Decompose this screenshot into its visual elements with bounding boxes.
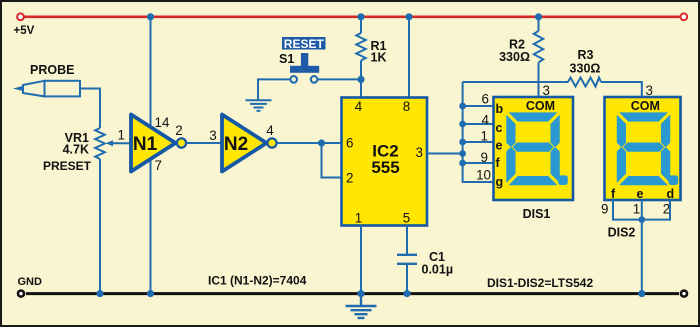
- potentiometer VR1: [95, 128, 105, 159]
- wire IC2 pin3 to segment bus: [427, 153, 463, 155]
- switch S1 pushbutton: [301, 53, 308, 67]
- wire stub pin e: [463, 141, 494, 143]
- net GND rail: [26, 292, 679, 295]
- display DIS2: [605, 97, 681, 200]
- decimal point DIS2: [669, 175, 679, 185]
- wire IC2 pin5 to C1: [406, 226, 408, 255]
- inverter N1: [131, 115, 176, 172]
- svg-text:4: 4: [482, 113, 490, 128]
- display DIS1: [494, 97, 574, 200]
- capacitor C1: [397, 254, 417, 256]
- +5V right terminal: [680, 13, 687, 20]
- svg-text:3: 3: [416, 145, 423, 160]
- svg-text:PRESET: PRESET: [43, 159, 92, 173]
- N1 output bubble: [177, 138, 186, 147]
- junction bus/c: [459, 121, 466, 128]
- svg-text:4.7K: 4.7K: [63, 143, 89, 157]
- svg-text:PROBE: PROBE: [30, 63, 74, 77]
- svg-text:COM: COM: [631, 99, 660, 113]
- wire segment bus top run to R3 and DIS2 COM: [463, 81, 568, 83]
- ground symbol below GND rail: [346, 295, 377, 318]
- decimal point DIS1: [558, 175, 568, 185]
- svg-text:S1: S1: [279, 52, 294, 66]
- resistor R1: [360, 17, 362, 33]
- svg-text:4: 4: [266, 123, 274, 138]
- svg-text:1K: 1K: [371, 50, 387, 64]
- svg-text:1: 1: [633, 202, 640, 217]
- wire DIS2 to GND: [641, 220, 643, 294]
- svg-text:IC1 (N1-N2)=7404: IC1 (N1-N2)=7404: [208, 274, 307, 288]
- svg-text:e: e: [496, 139, 503, 153]
- S1 right contact: [311, 76, 318, 83]
- svg-text:g: g: [496, 175, 504, 189]
- junction DIS2 / GND: [638, 290, 645, 297]
- junction bus/b: [459, 103, 466, 110]
- wire stub pin b: [463, 105, 494, 107]
- wire stub pin f: [463, 162, 494, 164]
- net +5V rail: [25, 15, 680, 18]
- ground symbol at S1: [246, 100, 272, 111]
- svg-text:1: 1: [118, 128, 125, 143]
- GND left terminal: [18, 291, 24, 297]
- junction node at pin6 wire: [318, 139, 325, 146]
- svg-text:b: b: [496, 102, 504, 116]
- svg-text:6: 6: [482, 92, 489, 107]
- resistor R2: [538, 17, 540, 31]
- wire N1 pin14 to +5V: [150, 17, 152, 128]
- svg-text:d: d: [667, 187, 675, 201]
- svg-text:0.01µ: 0.01µ: [422, 263, 454, 277]
- svg-text:9: 9: [481, 150, 488, 165]
- svg-text:N1: N1: [133, 134, 158, 155]
- svg-text:GND: GND: [18, 276, 43, 288]
- svg-text:1: 1: [355, 211, 362, 226]
- wire VR1 bottom to GND: [99, 159, 101, 294]
- IC U IC2 555: [342, 98, 428, 226]
- junction R2 / +5V: [535, 13, 542, 20]
- inverter N2: [222, 115, 267, 172]
- svg-text:N2: N2: [224, 134, 248, 155]
- svg-text:330Ω: 330Ω: [499, 50, 530, 64]
- svg-text:COM: COM: [526, 99, 555, 113]
- svg-text:e: e: [637, 187, 644, 201]
- junction bus/e: [459, 139, 466, 146]
- svg-text:3: 3: [209, 128, 216, 143]
- wire R2 to DIS1 pin3: [538, 82, 540, 97]
- junction IC2 pin8 / +5V: [405, 13, 412, 20]
- wire N2 out to IC2 pin6: [277, 142, 342, 144]
- wire junction to IC2 pin2: [322, 143, 342, 178]
- wire stub pin c: [463, 123, 494, 125]
- svg-text:2: 2: [346, 171, 353, 186]
- wire S1 right to R1 bottom node: [318, 78, 361, 80]
- switch S1 label RESET: [282, 37, 326, 50]
- svg-text:5: 5: [403, 211, 410, 226]
- svg-text:+5V: +5V: [14, 25, 35, 37]
- junction N1 pin14 / +5V: [147, 13, 154, 20]
- junction N1 pin7 / GND: [147, 290, 154, 297]
- wire N1 pin7 to GND: [150, 159, 152, 294]
- N2 output bubble: [267, 138, 276, 147]
- +5V left terminal: [17, 13, 24, 20]
- junction R1 / S1 / IC2 pin4: [357, 76, 364, 83]
- GND right terminal: [681, 291, 687, 297]
- S1 left contact: [290, 76, 297, 83]
- svg-text:RESET: RESET: [284, 37, 325, 51]
- svg-text:DIS1: DIS1: [523, 207, 551, 221]
- wire N1 out to N2 in: [187, 142, 223, 144]
- junction bus/IC2 pin3: [459, 150, 466, 157]
- wire R1 node to IC2 pin4: [360, 79, 362, 97]
- svg-text:330Ω: 330Ω: [570, 61, 601, 75]
- svg-text:DIS2: DIS2: [608, 226, 636, 240]
- svg-text:9: 9: [601, 202, 608, 217]
- VR1 wiper arrow: [106, 140, 114, 146]
- svg-text:2: 2: [175, 123, 182, 138]
- junction C1 / GND: [403, 290, 410, 297]
- svg-text:1: 1: [481, 129, 488, 144]
- seven segment digit DIS1: [507, 113, 560, 185]
- wire IC2 pin8 to +5V: [408, 17, 410, 98]
- junction bus/f: [459, 160, 466, 167]
- wire probe to VR1 top: [80, 89, 100, 129]
- svg-text:c: c: [496, 121, 503, 135]
- wire C1 to GND: [406, 264, 408, 294]
- svg-text:7: 7: [155, 158, 162, 173]
- wire DIS2 pins f e d bracket: [613, 200, 670, 220]
- junction VR1/GND: [96, 290, 103, 297]
- probe P1: [13, 81, 80, 97]
- svg-text:555: 555: [371, 158, 399, 177]
- segment bus vertical: [463, 82, 494, 182]
- svg-text:4: 4: [355, 99, 363, 114]
- svg-text:6: 6: [346, 136, 353, 151]
- svg-text:8: 8: [403, 99, 410, 114]
- svg-text:14: 14: [155, 115, 170, 130]
- junction R1 / +5V: [357, 13, 364, 20]
- resistor R3: [568, 78, 601, 87]
- svg-text:R3: R3: [578, 48, 594, 62]
- svg-text:10: 10: [476, 168, 491, 183]
- junction bracket center: [638, 216, 645, 223]
- seven segment digit DIS2: [617, 113, 670, 185]
- svg-text:DIS1-DIS2=LTS542: DIS1-DIS2=LTS542: [487, 276, 593, 290]
- junction IC2 pin1 / GND: [357, 290, 364, 297]
- wire R3 to DIS2 pin3: [601, 82, 642, 97]
- wire S1 left to ground: [258, 79, 290, 99]
- wire IC2 pin1 to GND: [360, 226, 362, 294]
